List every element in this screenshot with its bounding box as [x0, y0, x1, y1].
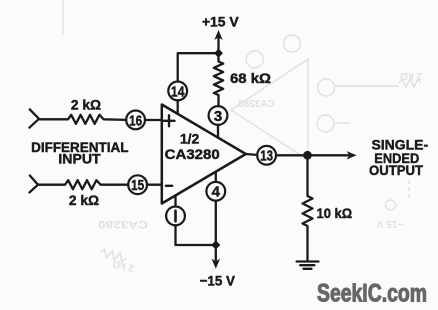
resistor 2 kΩ lower	[38, 180, 128, 189]
wire: op-amp output to pin 13	[246, 153, 257, 156]
pin 3	[209, 106, 228, 125]
wire: pin 1 to −15V node	[176, 225, 216, 245]
input terminal lower	[29, 176, 38, 193]
svg-text:2 kΩ: 2 kΩ	[69, 192, 99, 208]
svg-text:−15 V: −15 V	[200, 273, 236, 289]
svg-text:SeekIC.com: SeekIC.com	[317, 280, 427, 308]
label −15 V	[200, 273, 236, 289]
label 10 kΩ	[317, 205, 353, 221]
input terminal upper	[29, 109, 39, 127]
pin 4	[215, 172, 217, 182]
output arrow	[308, 154, 349, 156]
svg-text:CA3280: CA3280	[238, 99, 275, 110]
wire: pin 13 to output node	[276, 154, 308, 156]
svg-text:15: 15	[131, 177, 144, 194]
svg-text:10 kΩ: 10 kΩ	[317, 205, 353, 221]
svg-text:4: 4	[212, 184, 221, 201]
svg-text:14: 14	[171, 83, 185, 100]
op-amp U1 1/2 CA3280	[162, 105, 246, 204]
wire: pin 14 stub to op-amp	[177, 100, 179, 114]
svg-text:CA3280: CA3280	[165, 146, 220, 162]
resistor 10 kΩ	[303, 155, 313, 260]
label DIFFERENTIAL INPUT	[31, 139, 129, 166]
svg-text:2 kΩ: 2 kΩ	[111, 257, 135, 273]
svg-text:2 kΩ: 2 kΩ	[400, 70, 422, 81]
junction: +15V node	[215, 49, 223, 57]
svg-text:CA3280: CA3280	[98, 218, 148, 230]
svg-text:16: 16	[129, 112, 142, 129]
wire: pin 15 to op-amp	[147, 184, 162, 186]
label SINGLE-ENDED OUTPUT	[369, 136, 428, 178]
svg-text:+15 V: +15 V	[202, 13, 239, 29]
svg-text:−15 V: −15 V	[376, 218, 403, 229]
junction: output node	[303, 151, 312, 160]
pin 14	[168, 82, 187, 101]
svg-text:13: 13	[260, 148, 273, 165]
resistor 68 kΩ	[214, 53, 223, 106]
−15 V supply arrow	[215, 245, 217, 260]
pin 1	[174, 196, 176, 207]
ground	[297, 262, 319, 269]
label 2 kΩ upper	[71, 96, 101, 112]
svg-text:68 kΩ: 68 kΩ	[230, 70, 271, 86]
junction: −15V node	[212, 241, 220, 249]
watermark background (decorative)	[63, 0, 421, 262]
wire: pin 4 to −15V node	[215, 201, 217, 245]
label 68 kΩ	[230, 70, 271, 86]
wire: +15V node to pin 14	[178, 53, 219, 81]
svg-text:3: 3	[214, 108, 222, 125]
svg-text:1/2: 1/2	[180, 131, 200, 147]
svg-text:OUTPUT: OUTPUT	[369, 162, 423, 178]
+15 V supply arrow	[217, 38, 219, 53]
label 1/2 CA3280	[165, 131, 220, 162]
svg-text:INPUT: INPUT	[58, 150, 101, 166]
label +15 V	[202, 13, 239, 29]
pin 16	[126, 111, 145, 130]
label 2 kΩ lower	[69, 192, 99, 208]
pin 13	[257, 146, 276, 165]
pin 15	[128, 175, 147, 194]
wire: pin 3 stub to op-amp	[217, 125, 219, 137]
svg-text:2 kΩ: 2 kΩ	[71, 96, 101, 112]
wire: pin 16 to op-amp	[145, 119, 162, 121]
resistor 2 kΩ upper	[39, 115, 126, 124]
